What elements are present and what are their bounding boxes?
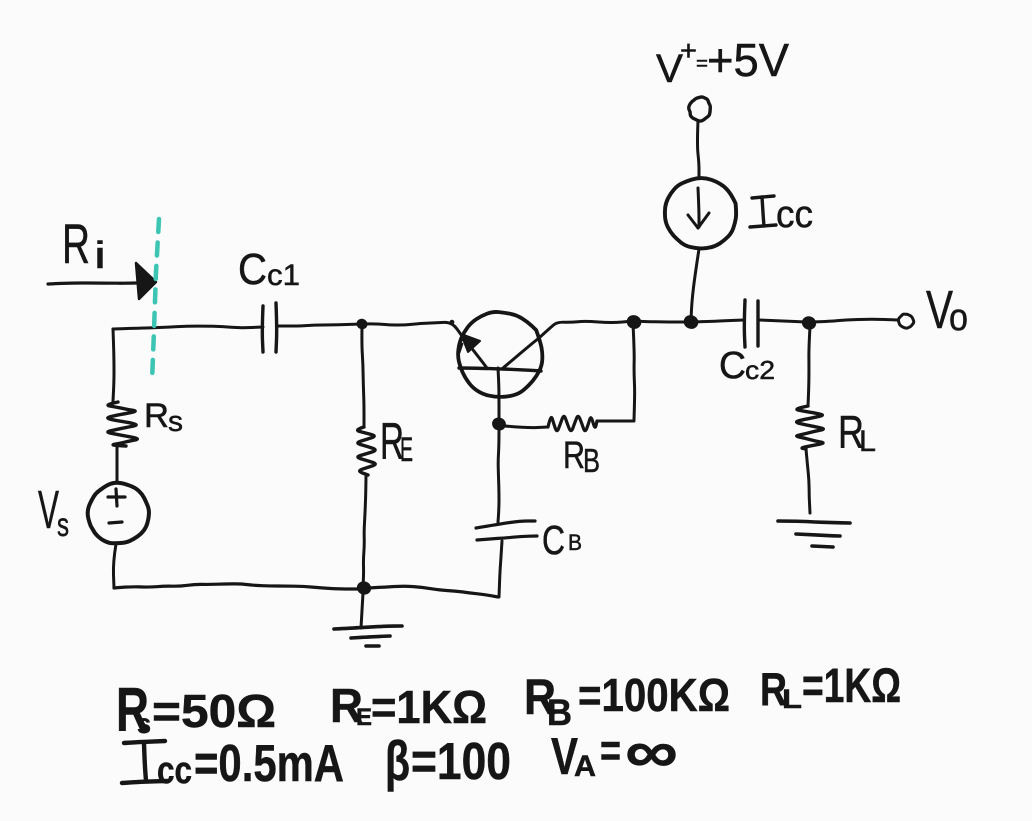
svg-text:=1KΩ: =1KΩ [371,681,487,733]
svg-text:L: L [782,684,802,714]
svg-text:+5V: +5V [707,34,789,86]
svg-text:B: B [547,692,572,733]
svg-text:C: C [238,245,267,294]
svg-text:C: C [719,345,746,387]
svg-text:=50Ω: =50Ω [152,685,276,737]
svg-text:E: E [356,704,372,731]
svg-text:s: s [168,406,183,438]
svg-text:B: B [568,530,582,555]
svg-text:c2: c2 [745,355,775,385]
svg-text:C: C [542,517,565,563]
svg-text:=100KΩ: =100KΩ [578,669,730,721]
svg-text:V: V [38,480,59,540]
svg-text:cc: cc [776,194,813,236]
svg-text:R: R [144,397,169,435]
svg-text:∞: ∞ [625,718,678,785]
svg-text:L: L [859,425,876,458]
svg-text:c1: c1 [267,259,300,292]
svg-text:A: A [574,750,596,783]
svg-text:s: s [137,708,151,739]
svg-text:cc: cc [157,750,192,792]
svg-text:R: R [563,435,585,477]
svg-text:E: E [400,431,413,469]
svg-text:B: B [583,442,600,479]
svg-text:=1KΩ: =1KΩ [802,660,901,713]
svg-text:β: β [385,729,410,792]
svg-text:s: s [57,506,69,543]
svg-text:i: i [94,235,106,277]
svg-text:+: + [680,35,697,66]
svg-text:o: o [949,297,968,339]
svg-text:R: R [62,212,90,275]
svg-text:=100: =100 [411,733,511,791]
svg-text:=0.5mA: =0.5mA [194,735,344,793]
svg-text:=: = [600,724,621,776]
